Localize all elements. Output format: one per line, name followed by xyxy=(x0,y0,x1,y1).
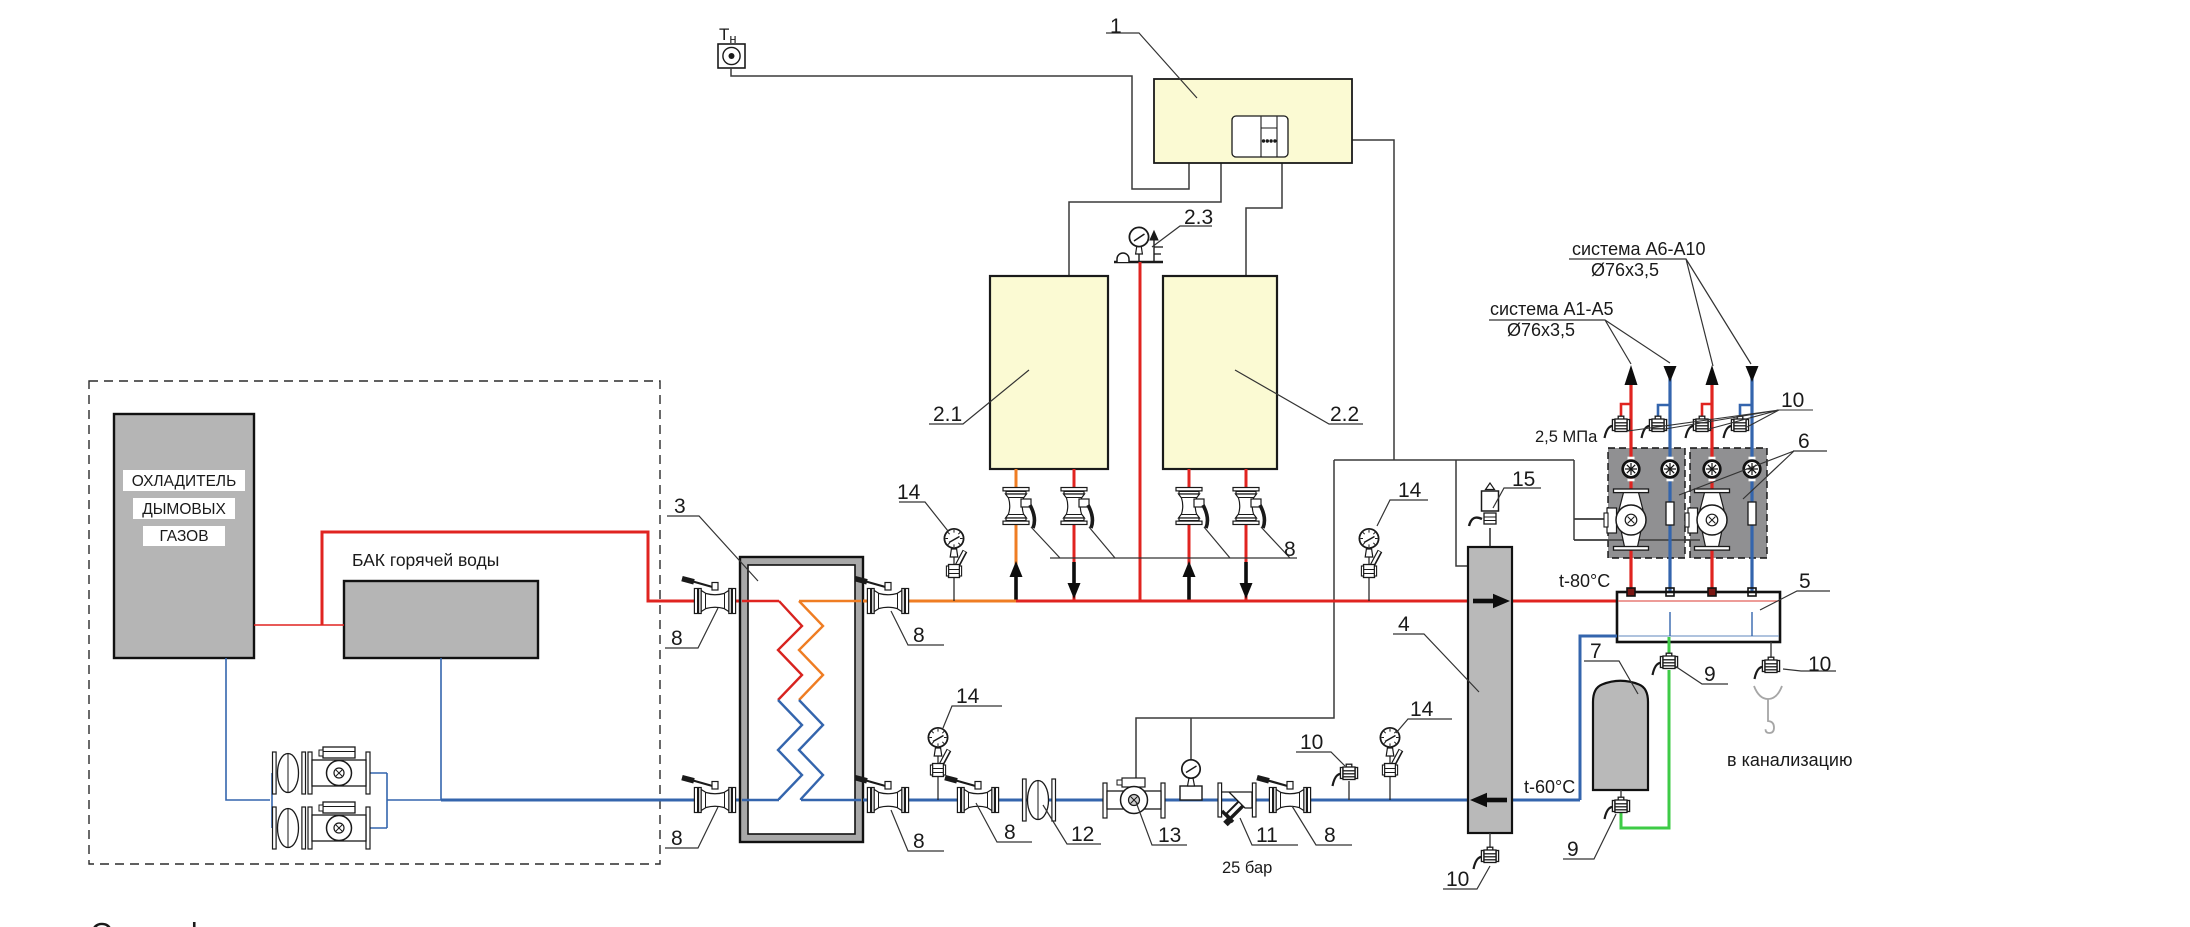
label 8 xyxy=(1292,806,1352,845)
svg-text:12: 12 xyxy=(1071,823,1094,846)
boiler safety gauge 2.3 xyxy=(1117,227,1163,262)
wire controller to boiler 2.1 xyxy=(1069,163,1221,276)
label 13 xyxy=(1136,802,1187,845)
collector drain stub xyxy=(1770,642,1772,659)
outdoor sensor Tn xyxy=(718,44,745,68)
compensator of pump 1 xyxy=(273,752,306,794)
pipe: exchanger3 secondary cold zigzag xyxy=(799,700,823,800)
boiler 2.2 xyxy=(1163,276,1277,469)
pipe: system A1 riser drain stub xyxy=(1621,404,1631,417)
svg-text:10: 10 xyxy=(1781,389,1804,412)
svg-text:9: 9 xyxy=(1567,838,1579,861)
collector nozzle square A1 supply xyxy=(1627,588,1635,596)
pump 1 xyxy=(308,747,370,794)
wire: blue drop from tank xyxy=(440,658,442,800)
svg-text:8: 8 xyxy=(671,827,683,850)
svg-text:2.1: 2.1 xyxy=(933,403,962,426)
label 12 xyxy=(1043,805,1101,844)
svg-text:в канализацию: в канализацию xyxy=(1727,750,1852,770)
label 1 xyxy=(1106,33,1197,98)
collector nozzle square A1 return xyxy=(1666,588,1674,596)
label 5 xyxy=(1760,591,1830,610)
label 9 xyxy=(1675,666,1728,684)
flow arrow up system A6 supply xyxy=(1706,365,1719,385)
svg-text:15: 15 xyxy=(1512,468,1535,491)
label 10 xyxy=(1783,669,1836,671)
tank drain stub xyxy=(1620,790,1622,800)
boiler valve riser 1 xyxy=(1003,488,1034,529)
svg-text:2.2: 2.2 xyxy=(1330,403,1359,426)
label 2.3 xyxy=(1152,226,1212,247)
pressure gauge on return xyxy=(1180,760,1202,800)
drain cock riser 4 xyxy=(1724,416,1749,438)
heat exchanger 3 inner cavity xyxy=(748,565,855,834)
svg-text:2,5 МПа: 2,5 МПа xyxy=(1535,428,1598,446)
pipe: exchanger3 hot zigzag xyxy=(778,601,802,700)
pipe: exchanger3 secondary return stub xyxy=(801,799,861,802)
wire: pump suction manifold xyxy=(271,773,273,828)
label ГАЗОВ xyxy=(143,526,225,546)
flue gas cooler vessel xyxy=(114,414,254,658)
sewer funnel symbol xyxy=(1754,686,1782,733)
pipe: system A6 return riser xyxy=(1750,377,1753,595)
svg-text:3: 3 xyxy=(674,495,686,518)
pump group 1 return gauge xyxy=(1662,457,1679,482)
pipe: safety group red riser xyxy=(1139,262,1142,601)
wire: red supply riser from cooler branch xyxy=(322,532,742,625)
pipe: exchanger3 primary inlet stub xyxy=(742,600,779,603)
label 9 xyxy=(1563,814,1616,859)
pipe: system A1 return drain stub xyxy=(1658,405,1670,417)
flow arrow up riser 1 xyxy=(1010,561,1023,600)
heat exchanger 4 xyxy=(1468,547,1512,833)
pipe: system A6 return drain stub xyxy=(1740,405,1752,417)
expansion tank 7 xyxy=(1593,681,1648,790)
svg-text:8: 8 xyxy=(913,830,925,853)
drain cock 10 on return xyxy=(1348,781,1350,800)
boiler valve riser 4 xyxy=(1233,488,1264,529)
flow arrow up riser 3 xyxy=(1183,561,1196,600)
gauge 14 on blue return xyxy=(928,728,949,800)
pipe: boiler 2.2 return riser xyxy=(1188,469,1191,601)
heat exchanger 3 shell xyxy=(740,557,863,842)
pipe: green make-up line xyxy=(1621,637,1669,828)
collector 5 xyxy=(1617,592,1780,642)
drain cock riser 3 xyxy=(1686,416,1711,438)
svg-text:14: 14 xyxy=(956,685,980,708)
svg-text:13: 13 xyxy=(1158,824,1181,847)
svg-text:7: 7 xyxy=(1590,640,1602,663)
wire: blue return main xyxy=(441,799,742,802)
svg-text:система А6-А10: система А6-А10 xyxy=(1572,239,1706,259)
svg-text:ДЫМОВЫХ: ДЫМОВЫХ xyxy=(142,501,226,518)
valve 8 exchanger3 secondary return xyxy=(855,778,909,813)
strainer 11 xyxy=(1218,783,1256,824)
pipe: system A6 riser drain stub xyxy=(1702,404,1712,417)
flow arrow down riser 4 xyxy=(1240,562,1253,599)
controller cabinet 1 xyxy=(1154,79,1352,163)
flow arrow up system A1 supply xyxy=(1625,365,1638,385)
collector internal return line xyxy=(1618,635,1779,637)
svg-text:ГАЗОВ: ГАЗОВ xyxy=(159,528,208,545)
label 10 risers leader xyxy=(1628,410,1813,431)
svg-text:14: 14 xyxy=(1398,479,1422,502)
drain cock riser 1 xyxy=(1605,416,1630,438)
pipe: exchanger3 primary outlet stub xyxy=(742,799,779,802)
pump group 2 supply gauge xyxy=(1704,457,1721,482)
label 10 xyxy=(1443,866,1490,889)
svg-text:5: 5 xyxy=(1799,570,1811,593)
drain cock riser 2 xyxy=(1642,416,1667,438)
label 2.2 xyxy=(1235,370,1363,424)
pipe: red supply main to collector xyxy=(1016,600,1617,603)
label 14 xyxy=(899,502,948,531)
wire controller to sensor bus xyxy=(1352,140,1394,460)
pipe: orange secondary supply main xyxy=(863,600,1016,603)
svg-text:Ø76х3,5: Ø76х3,5 xyxy=(1591,260,1659,280)
svg-text:9: 9 xyxy=(1704,663,1716,686)
wire sensor bus horizontal xyxy=(1334,459,1574,461)
flow arrow right in exchanger4 xyxy=(1473,594,1510,608)
drain cock 10 collector xyxy=(1755,657,1780,679)
label 14 xyxy=(1396,719,1452,733)
pump 2 xyxy=(308,802,370,849)
boundary dashed enclosure xyxy=(89,381,660,864)
collector nozzle square A6 supply xyxy=(1708,588,1716,596)
heat meter 13 xyxy=(1103,778,1165,818)
svg-text:8: 8 xyxy=(1324,824,1336,847)
svg-text:1: 1 xyxy=(1110,15,1122,38)
pump group 1 enclosure xyxy=(1608,448,1685,558)
wire controller to boiler 2.2 xyxy=(1246,163,1282,276)
collector internal riser A1 xyxy=(1669,612,1671,636)
boiler valve riser 2 xyxy=(1061,488,1092,529)
svg-text:11: 11 xyxy=(1256,824,1278,847)
gauge 14 on supply main xyxy=(1359,529,1380,601)
wire: red thin pipe cooler to tank xyxy=(254,624,344,626)
valve 9 tank drain xyxy=(1605,797,1630,819)
pump group 1 pump xyxy=(1604,489,1649,550)
svg-text:10: 10 xyxy=(1446,868,1469,891)
pipe: boiler 2.1 return riser (orange) xyxy=(1015,469,1018,601)
pipe: exchanger3 secondary outlet stub orange xyxy=(799,600,861,603)
valve 8 exchanger3 cold outlet xyxy=(682,778,736,813)
wire sensor to controller xyxy=(731,68,1189,189)
pipe: exchanger3 secondary hot zigzag xyxy=(799,601,823,700)
valve 8 on return after strainer xyxy=(1257,778,1311,813)
controller device icon xyxy=(1232,116,1288,157)
collector internal supply line xyxy=(1618,600,1779,602)
valve 8 on return before meter xyxy=(945,778,999,813)
wire bus to pump group 1 xyxy=(1574,460,1700,540)
label 4 xyxy=(1393,634,1479,692)
pipe: boiler 2.1 supply riser xyxy=(1073,469,1076,601)
svg-text:БАК горячей воды: БАК горячей воды xyxy=(352,550,499,570)
svg-text:8: 8 xyxy=(913,624,925,647)
flow arrow down riser 2 xyxy=(1068,562,1081,599)
pipe: system A1 return riser xyxy=(1668,377,1671,595)
label 8 boiler valves leader xyxy=(1031,527,1297,558)
wire bus to heat exchanger sensor xyxy=(1456,460,1468,566)
pipe: system A1 supply riser xyxy=(1629,371,1632,595)
svg-text:Ø76х3,5: Ø76х3,5 xyxy=(1507,320,1575,340)
valve 9 under collector xyxy=(1653,653,1678,675)
drain cock 10 under exchanger4 xyxy=(1489,833,1491,849)
svg-text:система А1-А5: система А1-А5 xyxy=(1490,299,1614,319)
pipe: blue feed to collector xyxy=(1580,636,1617,800)
wire bus to heat meter xyxy=(1136,460,1334,780)
pump group 2 pump xyxy=(1685,489,1730,550)
air vent 15 on exchanger4 xyxy=(1469,483,1499,547)
label 8 xyxy=(891,611,944,645)
pipe: boiler 2.2 supply riser xyxy=(1245,469,1248,601)
label 8 xyxy=(891,810,944,851)
svg-text:8: 8 xyxy=(1284,538,1296,561)
pump group 1 supply gauge xyxy=(1623,457,1640,482)
collector internal riser A6 xyxy=(1751,612,1753,636)
pump group 2 enclosure xyxy=(1690,448,1767,558)
label 8 xyxy=(665,807,718,848)
wire bus to pressure gauge xyxy=(1190,718,1192,761)
wire to pump 1 motor xyxy=(1574,518,1611,520)
boiler valve riser 3 xyxy=(1176,488,1207,529)
pump group 1 check valve xyxy=(1666,502,1674,525)
svg-text:Спецификация: Спецификация xyxy=(90,916,308,927)
flow arrow down system A1 return xyxy=(1664,366,1677,382)
pipe: blue return main xyxy=(863,799,1580,802)
label 14 xyxy=(943,706,1002,728)
gauge 14 before exchanger4 return xyxy=(1380,728,1401,800)
label ОХЛАДИТЕЛЬ xyxy=(123,470,245,491)
svg-text:10: 10 xyxy=(1300,731,1323,754)
label 15 xyxy=(1493,488,1541,508)
hot water tank xyxy=(344,581,538,658)
gauge 14 on orange main xyxy=(944,529,965,601)
pump group 2 return gauge xyxy=(1744,457,1761,482)
svg-text:10: 10 xyxy=(1808,653,1831,676)
svg-text:t-60°C: t-60°C xyxy=(1524,777,1575,797)
svg-text:14: 14 xyxy=(897,481,921,504)
compensator of pump 2 xyxy=(273,807,306,849)
svg-text:ОХЛАДИТЕЛЬ: ОХЛАДИТЕЛЬ xyxy=(132,473,237,490)
label 11 xyxy=(1240,818,1298,845)
wire: blue drop from cooler xyxy=(226,658,270,800)
label 8 xyxy=(976,803,1032,842)
wire: pump discharge manifold xyxy=(368,773,441,828)
pipe: exchanger3 primary cold zigzag xyxy=(778,700,802,800)
label 14 xyxy=(1377,500,1428,526)
flow arrow left in exchanger4 xyxy=(1470,793,1507,807)
safety group manifold bar xyxy=(1114,261,1163,264)
svg-text:25 бар: 25 бар xyxy=(1222,859,1272,877)
wire to pump 2 motor xyxy=(1574,539,1700,541)
label 2.1 xyxy=(929,370,1029,424)
label 8 xyxy=(665,608,718,648)
flow arrow down system A6 return xyxy=(1746,366,1759,382)
svg-text:6: 6 xyxy=(1798,430,1810,453)
valve 8 exchanger3 hot inlet xyxy=(682,579,736,614)
svg-text:2.3: 2.3 xyxy=(1184,206,1213,229)
svg-text:8: 8 xyxy=(671,627,683,650)
valve 8 exchanger3 secondary outlet xyxy=(855,579,909,614)
svg-text:8: 8 xyxy=(1004,821,1016,844)
svg-text:4: 4 xyxy=(1398,613,1410,636)
label 6 xyxy=(1679,451,1827,499)
label 10 xyxy=(1296,752,1345,766)
pipe: system A6 supply riser xyxy=(1710,371,1713,595)
boiler 2.1 xyxy=(990,276,1108,469)
label 3 xyxy=(667,516,758,581)
pump group 2 check valve xyxy=(1748,502,1756,525)
svg-text:t-80°C: t-80°C xyxy=(1559,571,1610,591)
compensator 12 xyxy=(1023,779,1056,821)
svg-text:14: 14 xyxy=(1410,698,1434,721)
label 7 xyxy=(1584,661,1638,694)
label ДЫМОВЫХ xyxy=(133,498,235,519)
collector nozzle square A6 return xyxy=(1748,588,1756,596)
